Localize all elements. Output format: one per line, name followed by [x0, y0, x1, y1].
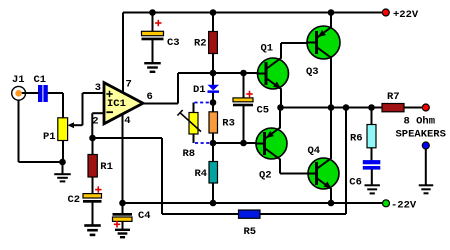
- svg-text:C5: C5: [257, 105, 270, 117]
- svg-text:-22V: -22V: [391, 200, 417, 212]
- svg-text:R4: R4: [195, 168, 208, 180]
- svg-text:C3: C3: [167, 37, 180, 49]
- svg-text:R1: R1: [100, 161, 113, 173]
- svg-text:C4: C4: [138, 210, 151, 222]
- svg-text:R7: R7: [387, 91, 400, 103]
- svg-text:P1: P1: [43, 131, 56, 143]
- svg-text:C6: C6: [349, 177, 362, 189]
- svg-text:C1: C1: [34, 74, 47, 86]
- svg-text:4: 4: [124, 115, 130, 127]
- svg-text:R3: R3: [222, 117, 235, 129]
- svg-text:R5: R5: [244, 226, 257, 238]
- svg-text:IC1: IC1: [107, 98, 126, 110]
- svg-text:Q4: Q4: [308, 145, 321, 157]
- svg-text:Q1: Q1: [261, 43, 274, 55]
- svg-text:R2: R2: [194, 38, 207, 50]
- svg-text:Q3: Q3: [306, 66, 319, 78]
- svg-text:R8: R8: [183, 148, 196, 160]
- svg-text:D1: D1: [193, 84, 206, 96]
- svg-text:Q2: Q2: [259, 170, 272, 182]
- svg-text:6: 6: [147, 91, 153, 103]
- svg-text:J1: J1: [12, 74, 25, 86]
- svg-text:2: 2: [92, 116, 98, 128]
- svg-text:C2: C2: [68, 194, 81, 206]
- svg-text:8 Ohm: 8 Ohm: [404, 116, 436, 128]
- svg-text:3: 3: [95, 82, 101, 94]
- svg-text:+22V: +22V: [393, 9, 419, 21]
- svg-text:R6: R6: [350, 133, 363, 145]
- svg-text:7: 7: [126, 79, 132, 91]
- svg-text:SPEAKERS: SPEAKERS: [396, 129, 446, 141]
